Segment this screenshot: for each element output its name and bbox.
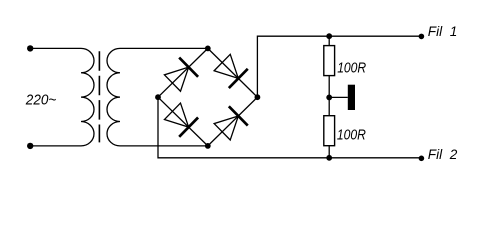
svg-text:Fil 2: Fil 2: [428, 147, 458, 162]
svg-text:Fil 1: Fil 1: [428, 24, 457, 39]
svg-text:100R: 100R: [337, 60, 366, 76]
svg-text:100R: 100R: [337, 128, 366, 144]
svg-text:220~: 220~: [25, 92, 56, 109]
